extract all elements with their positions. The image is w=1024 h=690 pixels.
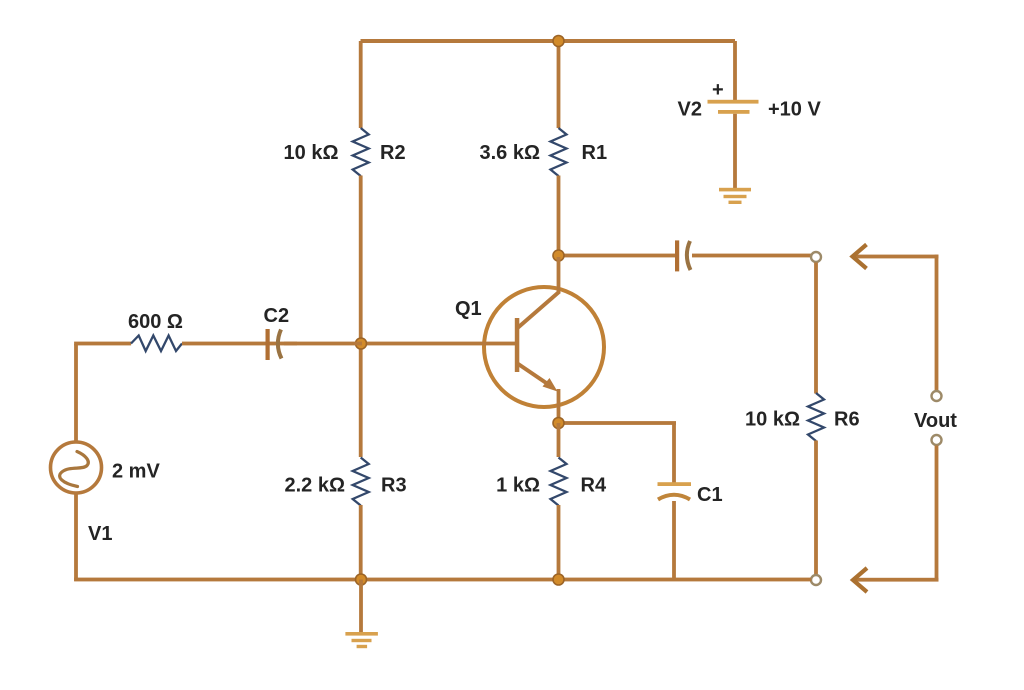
ground (bottom) bbox=[345, 632, 378, 648]
wire C1 to bottom rail bbox=[672, 501, 676, 580]
svg-text:V2: V2 bbox=[678, 99, 702, 121]
wire top rail bbox=[361, 39, 736, 43]
wire C1 branch drop bbox=[672, 423, 676, 484]
wire R6 upper bbox=[814, 263, 818, 394]
capacitor Cout plate right bbox=[687, 241, 691, 270]
capacitor Cout plate left bbox=[675, 240, 679, 271]
wire V2 branch drop bbox=[733, 41, 737, 103]
svg-text:2 mV: 2 mV bbox=[112, 461, 160, 483]
svg-text:3.6 kΩ: 3.6 kΩ bbox=[479, 142, 540, 164]
wire V1 bottom lead bbox=[74, 493, 78, 581]
transistor Q1 bbox=[484, 257, 604, 423]
wire R3 to bottom rail bbox=[359, 505, 363, 580]
wire R1 to collector node bbox=[557, 176, 561, 258]
svg-text:V1: V1 bbox=[88, 523, 112, 545]
svg-text:10 kΩ: 10 kΩ bbox=[745, 409, 800, 431]
svg-text:Q1: Q1 bbox=[455, 298, 482, 320]
junction R1 top rail bbox=[553, 36, 564, 47]
wire 600 ohm to C2 bbox=[182, 342, 297, 346]
wire R6 lower bbox=[814, 441, 818, 575]
svg-text:600 Ω: 600 Ω bbox=[128, 311, 183, 333]
wire coupling cap to R6 node bbox=[692, 254, 811, 258]
wire input segment to 600 ohm bbox=[74, 342, 131, 346]
svg-text:Vout: Vout bbox=[914, 410, 957, 432]
resistor 600 Ω bbox=[131, 336, 182, 352]
wire V2 to ground bbox=[733, 114, 737, 190]
wire V1 top lead bbox=[74, 344, 78, 442]
svg-text:+10 V: +10 V bbox=[768, 99, 821, 121]
junction bottom R4 bbox=[553, 574, 564, 585]
source V1 bbox=[51, 442, 102, 493]
svg-text:R2: R2 bbox=[380, 142, 406, 164]
wire R4 to bottom rail bbox=[557, 505, 561, 580]
capacitor C2 plate right bbox=[278, 330, 282, 359]
terminal Vout - bbox=[932, 435, 942, 445]
capacitor C2 plate left bbox=[266, 329, 270, 360]
wire emitter node to C1 bbox=[559, 421, 677, 425]
resistor R2 bbox=[353, 128, 369, 176]
svg-text:+: + bbox=[712, 79, 724, 101]
wire emitter node to R4 bbox=[557, 423, 561, 457]
Vout lower probe arrow bbox=[853, 446, 939, 593]
svg-text:C2: C2 bbox=[264, 305, 290, 327]
Vout upper probe arrow bbox=[853, 245, 939, 391]
wire bottom rail bbox=[74, 578, 811, 582]
wire C2 to base branch bbox=[284, 342, 362, 346]
resistor R3 bbox=[353, 458, 369, 506]
svg-text:2.2 kΩ: 2.2 kΩ bbox=[284, 475, 345, 497]
wire ground stub bottom bbox=[359, 580, 363, 633]
svg-text:1 kΩ: 1 kΩ bbox=[496, 475, 540, 497]
wire R2 to base node bbox=[359, 176, 363, 346]
wire collector node to coupling cap bbox=[559, 254, 676, 258]
wire R2 branch upper bbox=[359, 41, 363, 128]
resistor R6 bbox=[808, 393, 824, 441]
svg-text:R6: R6 bbox=[834, 409, 860, 431]
terminal node R6 top bbox=[811, 252, 821, 262]
wire R1 branch upper bbox=[557, 41, 561, 128]
svg-text:R3: R3 bbox=[381, 475, 407, 497]
battery V2 bbox=[708, 100, 759, 114]
svg-text:R4: R4 bbox=[581, 475, 607, 497]
capacitor C1 bbox=[658, 482, 692, 499]
junction emitter node bbox=[553, 418, 564, 429]
junction collector node bbox=[553, 250, 564, 261]
svg-text:10 kΩ: 10 kΩ bbox=[284, 142, 339, 164]
resistor R1 bbox=[551, 128, 567, 176]
junction base node bbox=[356, 338, 367, 349]
terminal Vout + bbox=[932, 391, 942, 401]
ground (V2) bbox=[719, 188, 751, 204]
svg-text:R1: R1 bbox=[582, 142, 608, 164]
junction bottom R3 bbox=[356, 574, 367, 585]
resistor R4 bbox=[551, 458, 567, 506]
wire base lead bbox=[362, 342, 515, 346]
terminal node R6 bottom bbox=[811, 575, 821, 585]
wire base node to R3 bbox=[359, 345, 363, 457]
svg-text:C1: C1 bbox=[697, 484, 723, 506]
